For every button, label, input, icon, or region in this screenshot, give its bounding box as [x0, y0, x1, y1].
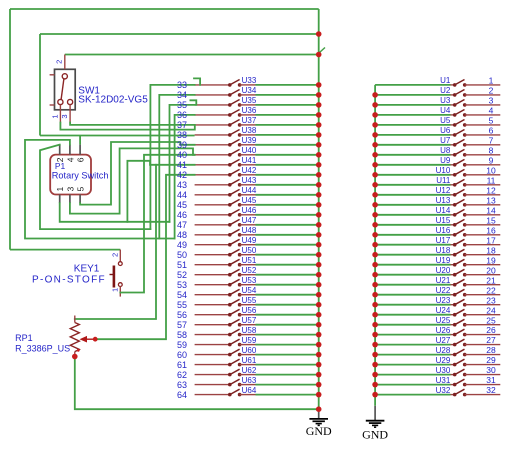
junction bus net 54: [316, 292, 322, 298]
junction bus net 55: [316, 302, 322, 308]
switch U61 label: [242, 356, 257, 365]
switch U32 contact 2: [463, 393, 467, 397]
junction right bus net 25: [372, 322, 378, 328]
switch U7 contact 1: [453, 143, 457, 147]
wire bus to U16: [375, 234, 450, 236]
switch U38 label: [242, 126, 257, 135]
switch U62 contact 2: [238, 373, 242, 377]
switch U47 contact 1: [228, 223, 232, 227]
switch U59 contact 1: [228, 343, 232, 347]
switch U37 lever: [230, 120, 240, 125]
switch U44 label: [242, 186, 257, 195]
switch U23 pin line left: [451, 304, 455, 306]
switch U2 lever: [455, 90, 465, 95]
SW1 bottom contact left: [58, 99, 63, 104]
switch U4 contact 1: [453, 113, 457, 117]
wire middle GND bus: [318, 9, 320, 409]
switch U28 contact 2: [463, 353, 467, 357]
switch U4 lever: [455, 110, 465, 115]
svg-text:50: 50: [177, 250, 187, 260]
svg-text:49: 49: [177, 240, 187, 250]
switch U35 label: [242, 96, 257, 105]
switch U10 contact 2: [463, 173, 467, 177]
switch U14 pin line left: [451, 214, 455, 216]
switch U60 lever: [230, 349, 240, 354]
net label 31: [486, 375, 496, 385]
switch U51 contact 2: [238, 263, 242, 267]
switch U61 contact 2: [238, 363, 242, 367]
switch U31 contact 1: [453, 383, 457, 387]
svg-text:23: 23: [486, 295, 496, 305]
switch U12 label: [436, 186, 451, 195]
switch U54 contact 2: [238, 293, 242, 297]
switch U61 pin line right: [240, 364, 256, 366]
svg-text:U55: U55: [242, 296, 257, 305]
switch U17 contact 2: [463, 243, 467, 247]
net label 62: [177, 370, 187, 380]
switch U18 pin line left: [451, 254, 455, 256]
switch U14 contact 1: [453, 213, 457, 217]
switch U2 label: [440, 86, 451, 95]
switch U5 contact 1: [453, 123, 457, 127]
switch U44 pin line right: [240, 194, 256, 196]
switch U50 label: [242, 246, 257, 255]
switch U2 contact 1: [453, 93, 457, 97]
switch U19 pin line left: [451, 264, 455, 266]
svg-text:U53: U53: [242, 276, 257, 285]
svg-text:3: 3: [489, 96, 494, 106]
net label 14: [486, 205, 496, 215]
svg-text:U48: U48: [242, 226, 257, 235]
KEY1 actuator bar: [113, 266, 116, 288]
switch U38 lever: [230, 130, 240, 135]
svg-text:51: 51: [177, 260, 187, 270]
junction right bus net 10: [372, 172, 378, 178]
net label 45: [177, 200, 187, 210]
wire bus to U7: [375, 144, 450, 146]
switch U8 pin line right: [465, 154, 501, 156]
net label 42: [177, 170, 187, 180]
junction right bus net 23: [372, 302, 378, 308]
wire bus to U31: [375, 384, 450, 386]
switch U10 lever: [455, 169, 465, 174]
svg-text:27: 27: [486, 335, 496, 345]
switch U26 contact 1: [453, 333, 457, 337]
switch U27 contact 2: [463, 343, 467, 347]
switch U63 pin line right: [240, 384, 256, 386]
wire U43 to bus: [256, 184, 319, 186]
switch U46 label: [242, 206, 257, 215]
switch U24 pin line right: [465, 314, 501, 316]
junction right bus net 16: [372, 232, 378, 238]
wire KEY1 pin2 horizontal: [10, 249, 120, 251]
switch U57 label: [242, 316, 257, 325]
wire U42 to bus: [256, 174, 319, 176]
switch U60 label: [242, 346, 257, 355]
switch U6 pin line left: [451, 134, 455, 136]
SW1 bottom contact right: [68, 99, 73, 104]
switch U21 contact 2: [463, 283, 467, 287]
switch U11 label: [436, 176, 451, 185]
junction bus net 43: [316, 182, 322, 188]
switch U44 pin line left: [195, 194, 230, 196]
switch U34 label: [242, 86, 257, 95]
net label 25: [486, 315, 496, 325]
svg-text:43: 43: [177, 180, 187, 190]
switch U37 contact 2: [238, 123, 242, 127]
switch U43 contact 2: [238, 183, 242, 187]
switch U62 pin line right: [240, 374, 256, 376]
svg-text:GND: GND: [362, 427, 388, 441]
junction bus net 39: [316, 142, 322, 148]
switch U56 lever: [230, 309, 240, 314]
switch U59 contact 2: [238, 343, 242, 347]
switch U62 contact 1: [228, 373, 232, 377]
wire U39 to bus: [256, 144, 319, 146]
svg-text:U3: U3: [440, 96, 451, 105]
switch U19 contact 1: [453, 263, 457, 267]
switch U23 lever: [455, 299, 465, 304]
switch U23 pin line right: [465, 304, 501, 306]
switch U17 contact 1: [453, 243, 457, 247]
wire bus to U27: [375, 344, 450, 346]
switch U5 contact 2: [463, 123, 467, 127]
switch U9 contact 1: [453, 163, 457, 167]
junction right bus net 2: [372, 92, 378, 98]
net label 8: [489, 145, 494, 155]
svg-text:SK-12D02-VG5: SK-12D02-VG5: [78, 94, 148, 105]
wire bus to U15: [375, 224, 450, 226]
switch U48 contact 1: [228, 233, 232, 237]
switch U14 label: [436, 206, 451, 215]
switch U9 lever: [455, 159, 465, 164]
wire U37 to bus: [256, 124, 319, 126]
svg-text:U1: U1: [440, 76, 451, 85]
wire U45 to bus: [256, 204, 319, 206]
wire RP1 wiper to net 42: [95, 175, 194, 339]
switch U57 lever: [230, 319, 240, 324]
wire SW1 pin2 horizontal: [65, 54, 319, 56]
net label 27: [486, 335, 496, 345]
switch U63 lever: [230, 379, 240, 384]
wire net 35 riser: [170, 105, 195, 222]
svg-text:64: 64: [177, 390, 187, 400]
P1 top pin 2 stub: [59, 145, 61, 155]
switch U45 pin line left: [195, 204, 230, 206]
switch U43 lever: [230, 179, 240, 184]
svg-text:22: 22: [486, 285, 496, 295]
switch U13 contact 2: [463, 203, 467, 207]
switch U33 contact 1: [228, 83, 232, 87]
switch U35 pin line left: [195, 104, 230, 106]
switch U53 contact 2: [238, 283, 242, 287]
svg-text:U11: U11: [436, 176, 451, 185]
net label 38: [177, 130, 187, 140]
switch U50 contact 2: [238, 253, 242, 257]
switch U7 lever: [455, 139, 465, 144]
net label 49: [177, 240, 187, 250]
junction bus bottom: [316, 406, 322, 412]
svg-text:U17: U17: [436, 236, 451, 245]
svg-text:U49: U49: [242, 236, 257, 245]
switch U50 pin line left: [195, 254, 230, 256]
wire bus to U11: [375, 184, 450, 186]
net label 26: [486, 325, 496, 335]
switch U25 contact 1: [453, 323, 457, 327]
switch SW1 body: [55, 69, 76, 110]
wire diagonal to P1 pin2: [40, 145, 150, 230]
svg-text:U61: U61: [242, 356, 257, 365]
SW1 reference label: [78, 85, 100, 96]
switch U19 label: [436, 256, 451, 265]
switch U24 lever: [455, 309, 465, 314]
junction right bus net 21: [372, 282, 378, 288]
switch U60 contact 1: [228, 353, 232, 357]
switch U53 label: [242, 276, 257, 285]
wire U41 to bus: [256, 164, 319, 166]
RP1 bottom junction: [72, 354, 78, 360]
switch U29 contact 2: [463, 363, 467, 367]
svg-text:20: 20: [486, 265, 496, 275]
svg-text:U42: U42: [242, 166, 257, 175]
KEY1 value label: [32, 274, 106, 285]
P1 top pin 4 stub: [69, 145, 71, 155]
wire bus to U32: [375, 394, 450, 396]
switch U17 pin line left: [451, 244, 455, 246]
P1 pin number 2: [55, 157, 65, 162]
switch U45 lever: [230, 199, 240, 204]
net label 23: [486, 295, 496, 305]
switch U54 label: [242, 286, 257, 295]
svg-text:U40: U40: [242, 146, 257, 155]
wire bus to U1: [375, 84, 450, 86]
junction right bus net 13: [372, 202, 378, 208]
net label 4: [489, 106, 494, 116]
net 35 hook: [190, 100, 196, 105]
svg-text:35: 35: [177, 100, 187, 110]
net label 15: [486, 215, 496, 225]
wire U58 to bus: [256, 334, 319, 336]
SW1 pin number 3: [60, 114, 69, 118]
switch U54 lever: [230, 289, 240, 294]
switch U36 contact 1: [228, 113, 232, 117]
switch U45 contact 1: [228, 203, 232, 207]
switch U63 contact 2: [238, 383, 242, 387]
junction bus net 60: [316, 352, 322, 358]
switch U57 contact 1: [228, 323, 232, 327]
svg-text:U59: U59: [242, 336, 257, 345]
junction bus net 41: [316, 162, 322, 168]
net label 37: [177, 120, 187, 130]
wire U44 to bus: [256, 194, 319, 196]
wire U34 to bus: [256, 94, 319, 96]
net label 9: [489, 155, 494, 165]
wire U55 to bus: [256, 304, 319, 306]
svg-text:33: 33: [177, 80, 187, 90]
switch U20 lever: [455, 269, 465, 274]
switch U2 pin line left: [451, 94, 455, 96]
net label 44: [177, 190, 187, 200]
SW1 pin 1 stub: [59, 105, 61, 123]
switch U16 contact 2: [463, 233, 467, 237]
junction right bus net 5: [372, 122, 378, 128]
svg-text:U35: U35: [242, 96, 257, 105]
net label 28: [486, 345, 496, 355]
junction right bus net 7: [372, 142, 378, 148]
wire bus to U8: [375, 154, 450, 156]
switch U15 contact 1: [453, 223, 457, 227]
switch U55 contact 2: [238, 303, 242, 307]
switch U21 lever: [455, 279, 465, 284]
switch U43 label: [242, 176, 257, 185]
wire right GND bus: [374, 85, 376, 406]
switch U23 contact 2: [463, 303, 467, 307]
junction bus net 53: [316, 282, 322, 288]
switch U22 pin line left: [451, 294, 455, 296]
switch U49 label: [242, 236, 257, 245]
RP1 bottom stub: [74, 352, 76, 357]
svg-text:U31: U31: [436, 376, 451, 385]
switch U33 pin line left: [195, 84, 230, 86]
junction bus net 44: [316, 192, 322, 198]
switch U22 lever: [455, 289, 465, 294]
switch U29 pin line right: [465, 364, 501, 366]
svg-text:U5: U5: [440, 116, 451, 125]
wire bus to U19: [375, 264, 450, 266]
junction bus net 49: [316, 242, 322, 248]
svg-text:2: 2: [55, 60, 64, 64]
SW1 value label: [78, 94, 148, 105]
switch U33 contact 2: [238, 83, 242, 87]
switch U21 contact 1: [453, 283, 457, 287]
switch U26 label: [436, 326, 451, 335]
switch U44 lever: [230, 189, 240, 194]
junction bus net 46: [316, 212, 322, 218]
switch U54 contact 1: [228, 293, 232, 297]
wire bus to U14: [375, 214, 450, 216]
switch U33 pin line right: [240, 84, 256, 86]
svg-text:U20: U20: [436, 266, 451, 275]
svg-text:U44: U44: [242, 186, 257, 195]
switch U41 pin line right: [240, 164, 256, 166]
switch U63 label: [242, 376, 257, 385]
switch U31 lever: [455, 379, 465, 384]
switch U27 label: [436, 336, 451, 345]
net label 20: [486, 265, 496, 275]
svg-text:U36: U36: [242, 106, 257, 115]
switch U24 contact 2: [463, 313, 467, 317]
switch U30 label: [436, 366, 451, 375]
switch U45 pin line right: [240, 204, 256, 206]
junction right bus net 12: [372, 192, 378, 198]
net label 43: [177, 180, 187, 190]
switch U1 pin line right: [465, 84, 501, 86]
net label 30: [486, 365, 496, 375]
switch U15 contact 2: [463, 223, 467, 227]
switch U35 contact 1: [228, 103, 232, 107]
switch U64 lever: [230, 389, 240, 394]
resistor RP1 zigzag: [70, 323, 79, 352]
switch U51 label: [242, 256, 257, 265]
switch U57 pin line left: [195, 324, 230, 326]
switch U54 pin line left: [195, 294, 230, 296]
svg-text:44: 44: [177, 190, 187, 200]
switch U48 label: [242, 226, 257, 235]
junction bus net 48: [316, 232, 322, 238]
wire U40 to bus: [256, 154, 319, 156]
switch U42 label: [242, 166, 257, 175]
svg-text:18: 18: [486, 245, 496, 255]
svg-text:28: 28: [486, 345, 496, 355]
junction bus net 61: [316, 362, 322, 368]
switch U46 lever: [230, 209, 240, 214]
switch U25 lever: [455, 319, 465, 324]
switch U43 pin line right: [240, 184, 256, 186]
switch U29 label: [436, 356, 451, 365]
switch U51 pin line left: [195, 264, 230, 266]
net label 63: [177, 380, 187, 390]
P1 pin number 4: [65, 157, 75, 162]
switch U10 contact 1: [453, 173, 457, 177]
net label 52: [177, 270, 187, 280]
wire U57 to bus: [256, 324, 319, 326]
switch U57 pin line right: [240, 324, 256, 326]
wire U63 to bus: [256, 384, 319, 386]
switch U11 pin line right: [465, 184, 501, 186]
switch U17 pin line right: [465, 244, 501, 246]
RP1 wiper arrow: [80, 336, 96, 343]
switch U60 pin line right: [240, 354, 256, 356]
wire bus to U13: [375, 204, 450, 206]
wire bus to U12: [375, 194, 450, 196]
svg-text:2: 2: [110, 253, 119, 257]
svg-text:U16: U16: [436, 226, 451, 235]
switch U46 contact 2: [238, 213, 242, 217]
wire bus to U30: [375, 374, 450, 376]
svg-text:U62: U62: [242, 366, 257, 375]
switch U37 pin line left: [195, 124, 230, 126]
wire U52 to bus: [256, 274, 319, 276]
svg-text:40: 40: [177, 150, 187, 160]
switch U29 contact 1: [453, 363, 457, 367]
junction bus net 38: [316, 132, 322, 138]
svg-text:31: 31: [486, 375, 496, 385]
wire U54 to bus: [256, 294, 319, 296]
P1 bottom pin 1 stub: [59, 195, 61, 204]
net label 7: [489, 135, 494, 145]
switch U18 pin line right: [465, 254, 501, 256]
switch U61 lever: [230, 359, 240, 364]
switch U11 contact 2: [463, 183, 467, 187]
net label 5: [489, 116, 494, 126]
switch U15 lever: [455, 219, 465, 224]
switch U26 pin line right: [465, 334, 501, 336]
wire net GND top loop: [10, 8, 319, 10]
junction right bus net 20: [372, 272, 378, 278]
switch U22 contact 2: [463, 293, 467, 297]
switch U35 contact 2: [238, 103, 242, 107]
switch U36 contact 2: [238, 113, 242, 117]
switch U3 label: [440, 96, 451, 105]
junction right bus net 6: [372, 132, 378, 138]
svg-text:U15: U15: [436, 216, 451, 225]
svg-text:U21: U21: [436, 276, 451, 285]
svg-text:14: 14: [486, 205, 496, 215]
switch U33 label: [242, 76, 257, 85]
switch U30 contact 1: [453, 373, 457, 377]
net label 34: [177, 90, 187, 100]
junction bus net 36: [316, 112, 322, 118]
